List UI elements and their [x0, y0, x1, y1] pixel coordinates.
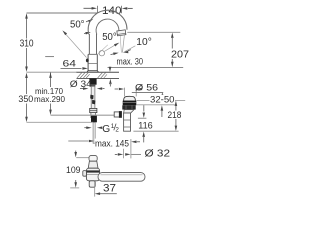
top view: lever handle — [98, 173, 145, 182]
countertop (mounting surface) — [27, 72, 120, 78]
pop-up waste locknut — [122, 105, 135, 109]
dimension 140 — [84, 5, 133, 17]
aerator (spout outlet) — [117, 30, 126, 36]
wire hose level line (max.290) — [51, 114, 120, 116]
dimension 109 — [66, 151, 90, 188]
svg-text:37: 37 — [103, 182, 116, 194]
basin top line — [137, 99, 186, 101]
hose G1/2 connector — [91, 115, 97, 122]
pop-up waste taper — [124, 110, 134, 114]
svg-text:max. 30: max. 30 — [117, 55, 144, 66]
svg-text:G: G — [102, 124, 110, 135]
wire hose end line (350) — [27, 121, 94, 123]
threaded shank below counter — [89, 78, 96, 84]
top view: bottom tab — [89, 181, 95, 187]
svg-text:218: 218 — [168, 110, 182, 120]
svg-text:max.290: max.290 — [34, 95, 65, 104]
top view: body hub — [86, 168, 99, 181]
svg-text:10°: 10° — [136, 37, 152, 48]
pop-up tailpipe — [124, 113, 131, 131]
lever knob closed (body left) — [86, 59, 89, 63]
dimension dia 32 — [115, 148, 171, 159]
10 deg angle annotation — [111, 35, 152, 55]
svg-text:350: 350 — [18, 93, 33, 104]
label 50 deg upper-left — [70, 19, 93, 35]
faucet spout inner arc — [96, 19, 119, 34]
wire 50 deg swing ray (lever closed->open) — [62, 30, 86, 57]
hose lower tube — [91, 113, 96, 118]
faucet body — [87, 54, 99, 72]
pop-up waste plug extension lines — [124, 88, 126, 97]
dimension dia 34 — [70, 79, 105, 90]
svg-text:Ø 56: Ø 56 — [135, 82, 158, 93]
svg-text:32-50: 32-50 — [150, 94, 175, 105]
svg-text:50°: 50° — [102, 32, 117, 43]
top view: left nub — [83, 171, 87, 177]
svg-text:Ø 32: Ø 32 — [145, 148, 171, 159]
dimension 64 — [45, 57, 88, 70]
dimension G 1/2 — [84, 123, 119, 135]
svg-text:2: 2 — [115, 127, 119, 134]
tailpipe end line — [133, 130, 178, 132]
top view: aerator cap — [89, 156, 97, 162]
dimension min.170 max.290 — [34, 73, 65, 116]
faucet spout outer arc — [88, 10, 127, 34]
dimension max. 145 — [68, 139, 140, 150]
dimension 350 — [18, 73, 33, 123]
pop-up side outlet — [114, 112, 121, 117]
svg-text:50°: 50° — [70, 19, 85, 30]
dimension 218 — [167, 101, 183, 131]
flexible hose — [90, 86, 95, 108]
svg-text:116: 116 — [138, 120, 153, 131]
wire top reference line — [27, 12, 98, 14]
faucet neck — [88, 34, 90, 54]
svg-text:Ø 34: Ø 34 — [70, 79, 93, 90]
dimension 116 — [138, 105, 153, 142]
dimension 37 — [95, 181, 117, 196]
svg-text:64: 64 — [63, 59, 77, 70]
svg-text:max. 145: max. 145 — [95, 139, 129, 150]
svg-text:310: 310 — [20, 39, 34, 50]
label 50 deg middle + lever open position — [97, 32, 119, 56]
label max. 30 — [108, 55, 184, 86]
dimension dia 56 — [115, 82, 164, 93]
top view: spout tube — [88, 161, 98, 168]
dimension 207 — [127, 32, 189, 67]
hose nut — [90, 108, 97, 112]
long hose end — [93, 122, 95, 143]
dimension 32-50 top arrow — [161, 93, 164, 100]
dimension 310 — [18, 13, 35, 72]
svg-text:109: 109 — [66, 165, 81, 175]
pop-up waste rings — [123, 101, 137, 106]
tailpipe extension lines — [123, 149, 125, 158]
pop-up waste plug dome — [124, 96, 136, 101]
basin bottom line — [137, 104, 175, 106]
label 32-50 — [150, 94, 176, 117]
svg-text:207: 207 — [171, 49, 189, 60]
